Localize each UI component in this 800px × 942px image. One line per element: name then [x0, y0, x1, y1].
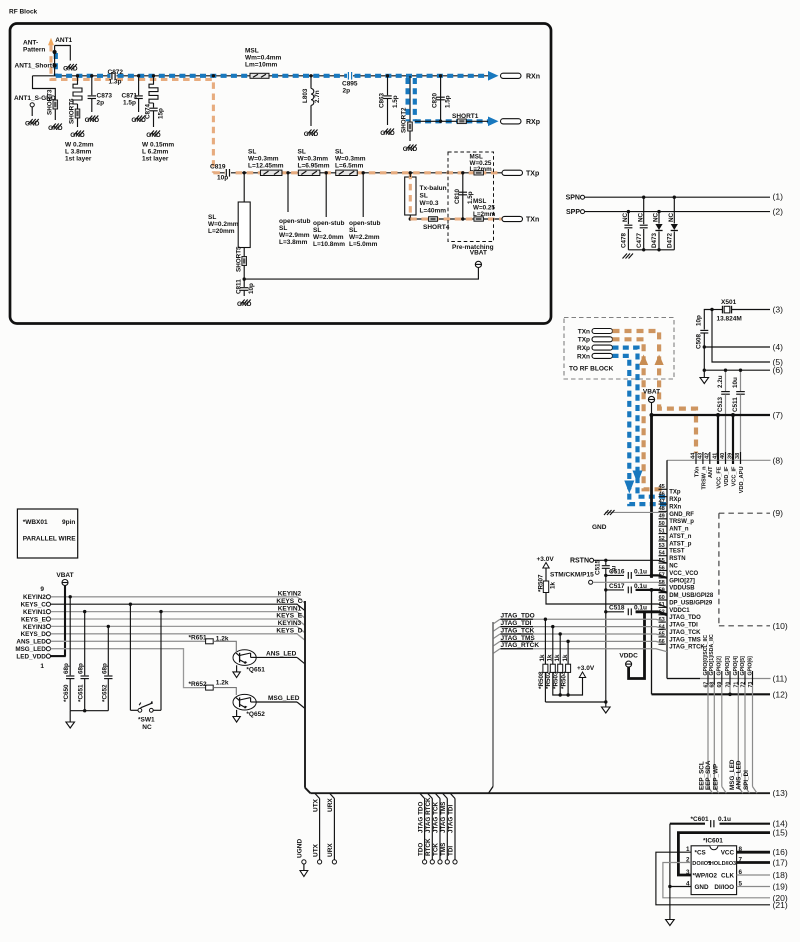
- svg-text:1st layer: 1st layer: [65, 156, 92, 163]
- svg-text:L=6.5mm: L=6.5mm: [335, 163, 364, 170]
- svg-text:open-stub: open-stub: [313, 220, 344, 227]
- svg-text:54: 54: [659, 551, 666, 557]
- svg-text:*CS: *CS: [695, 850, 706, 857]
- svg-text:UTX: UTX: [312, 798, 319, 812]
- svg-text:Wm=0.4mm: Wm=0.4mm: [245, 55, 282, 62]
- svg-text:SHORT5: SHORT5: [236, 246, 243, 272]
- svg-text:NC: NC: [668, 212, 675, 222]
- svg-text:GND: GND: [592, 524, 607, 531]
- svg-text:*R504: *R504: [561, 671, 568, 689]
- svg-text:JTAG_RTCK: JTAG_RTCK: [669, 645, 705, 651]
- svg-text:L=5.0mm: L=5.0mm: [349, 241, 378, 248]
- svg-text:NC: NC: [653, 212, 660, 222]
- svg-text:GND: GND: [237, 301, 252, 308]
- svg-text:JTAG_TDO: JTAG_TDO: [669, 615, 701, 621]
- svg-text:JTAG_TDI: JTAG_TDI: [669, 623, 698, 629]
- svg-text:ANT_n: ANT_n: [669, 527, 689, 533]
- svg-text:GPIO[1]/SDA_IIC: GPIO[1]/SDA_IIC: [709, 634, 715, 675]
- svg-text:1: 1: [40, 663, 44, 670]
- svg-text:0.1u: 0.1u: [634, 569, 647, 576]
- svg-text:(8): (8): [773, 455, 784, 465]
- svg-text:TXn: TXn: [694, 466, 700, 477]
- svg-text:C513: C513: [717, 396, 724, 412]
- svg-text:SHORT1: SHORT1: [452, 113, 479, 120]
- svg-text:50: 50: [659, 521, 665, 527]
- svg-text:D473: D473: [651, 232, 658, 248]
- svg-text:*C650: *C650: [63, 684, 70, 702]
- svg-text:L 6.2mm: L 6.2mm: [142, 149, 168, 156]
- svg-text:URX: URX: [327, 843, 334, 857]
- svg-text:*C651: *C651: [78, 684, 85, 702]
- svg-text:NC: NC: [637, 212, 644, 222]
- svg-text:KEYS_C: KEYS_C: [276, 598, 302, 605]
- svg-text:60: 60: [659, 595, 665, 601]
- svg-text:STM/CKM/P15: STM/CKM/P15: [550, 572, 594, 579]
- svg-text:GPIO[6]: GPIO[6]: [747, 656, 753, 676]
- svg-text:*C601: *C601: [691, 816, 709, 823]
- svg-text:2.7n: 2.7n: [314, 90, 321, 103]
- svg-text:(13): (13): [773, 788, 788, 798]
- svg-text:KEYS_D: KEYS_D: [21, 631, 47, 638]
- svg-text:L=2mm: L=2mm: [470, 166, 493, 173]
- svg-text:*Q652: *Q652: [246, 711, 265, 718]
- svg-text:ANT1: ANT1: [55, 37, 72, 44]
- svg-text:NC: NC: [669, 564, 678, 570]
- svg-text:KEYS_E: KEYS_E: [21, 616, 46, 623]
- svg-text:C518: C518: [609, 605, 625, 612]
- svg-text:*WBX01: *WBX01: [23, 519, 48, 526]
- svg-text:52: 52: [659, 536, 665, 542]
- svg-text:1k: 1k: [554, 654, 561, 662]
- svg-text:RTCK: RTCK: [425, 838, 432, 856]
- svg-text:C874: C874: [145, 103, 152, 119]
- svg-text:(3): (3): [773, 305, 784, 315]
- svg-text:GND: GND: [304, 131, 319, 138]
- svg-text:C511: C511: [732, 397, 739, 412]
- svg-text:open-stub: open-stub: [349, 220, 380, 227]
- svg-text:1k: 1k: [547, 654, 554, 662]
- svg-text:GPIO[2]: GPIO[2]: [717, 656, 723, 676]
- svg-text:TEST: TEST: [669, 549, 685, 555]
- svg-text:ANT: ANT: [708, 466, 714, 478]
- svg-text:68p: 68p: [101, 663, 108, 674]
- svg-text:L=40mm: L=40mm: [420, 208, 447, 215]
- svg-text:SL: SL: [248, 149, 256, 156]
- svg-text:ANS_LED: ANS_LED: [266, 650, 297, 657]
- svg-text:JTAG TCK: JTAG TCK: [433, 802, 440, 833]
- svg-text:9: 9: [40, 586, 44, 593]
- svg-text:2p: 2p: [97, 100, 105, 107]
- svg-text:(7): (7): [773, 410, 784, 420]
- svg-text:RXp: RXp: [577, 345, 590, 352]
- svg-text:Pre-matching: Pre-matching: [452, 244, 494, 251]
- svg-text:L=10.8mm: L=10.8mm: [313, 241, 345, 248]
- svg-text:(19): (19): [773, 882, 788, 892]
- svg-text:EEP_WP: EEP_WP: [713, 764, 720, 790]
- svg-text:TXn: TXn: [526, 217, 539, 224]
- svg-text:(18): (18): [773, 870, 788, 880]
- svg-text:GND: GND: [146, 132, 161, 139]
- svg-text:RF Block: RF Block: [9, 9, 38, 16]
- svg-text:TXp: TXp: [526, 170, 539, 177]
- svg-text:49: 49: [659, 514, 665, 520]
- svg-text:*R502: *R502: [545, 671, 552, 689]
- svg-text:UTX: UTX: [312, 843, 319, 857]
- svg-text:ANT-: ANT-: [23, 40, 38, 47]
- svg-text:TMS: TMS: [440, 843, 447, 856]
- svg-text:JTAG_RTCK: JTAG_RTCK: [501, 642, 540, 649]
- svg-text:VDD_IF: VDD_IF: [724, 466, 730, 486]
- svg-text:+3.0V: +3.0V: [537, 556, 555, 563]
- svg-text:13.824M: 13.824M: [717, 316, 742, 323]
- svg-text:C819: C819: [210, 164, 226, 171]
- svg-text:KEYIN3: KEYIN3: [278, 620, 302, 627]
- svg-text:RXp: RXp: [669, 497, 681, 503]
- svg-text:C477: C477: [636, 232, 643, 248]
- svg-text:*C652: *C652: [101, 684, 108, 702]
- svg-text:VDDC1: VDDC1: [669, 608, 690, 614]
- svg-text:VDD_APU: VDD_APU: [739, 467, 745, 494]
- svg-text:GPIO[4]: GPIO[4]: [733, 656, 739, 676]
- svg-text:2.2u: 2.2u: [717, 375, 724, 388]
- svg-text:KEYS_E: KEYS_E: [276, 613, 302, 620]
- svg-text:SL: SL: [208, 214, 216, 221]
- svg-text:SPP: SPP: [566, 209, 580, 216]
- svg-text:W=2.9mm: W=2.9mm: [279, 232, 310, 239]
- svg-text:(16): (16): [773, 847, 788, 857]
- svg-text:SHORT3: SHORT3: [47, 89, 54, 115]
- svg-text:68p: 68p: [78, 663, 85, 674]
- svg-text:C820: C820: [432, 92, 439, 108]
- svg-text:48: 48: [659, 506, 665, 512]
- svg-text:10p: 10p: [217, 175, 228, 182]
- svg-text:C478: C478: [621, 232, 628, 248]
- svg-text:3: 3: [686, 869, 690, 876]
- svg-text:open-stub: open-stub: [279, 218, 310, 225]
- svg-text:0.1u: 0.1u: [718, 816, 731, 823]
- svg-text:1k: 1k: [539, 654, 546, 662]
- svg-text:TRSW_p: TRSW_p: [669, 519, 694, 525]
- svg-text:+3.0V: +3.0V: [577, 665, 595, 672]
- svg-text:(12): (12): [773, 689, 788, 699]
- svg-text:0.1u: 0.1u: [634, 605, 647, 612]
- svg-text:C895: C895: [342, 81, 358, 88]
- svg-text:JTAG_TMS: JTAG_TMS: [501, 635, 536, 642]
- svg-text:JTAG_TCK: JTAG_TCK: [501, 627, 535, 634]
- svg-text:RXn: RXn: [669, 504, 681, 510]
- svg-text:1st layer: 1st layer: [142, 156, 169, 163]
- svg-text:JTAG RTCK: JTAG RTCK: [425, 797, 432, 833]
- svg-text:1k: 1k: [550, 581, 557, 589]
- svg-text:VDDUSB: VDDUSB: [669, 586, 695, 592]
- svg-text:GND: GND: [380, 130, 395, 137]
- svg-text:SL: SL: [349, 227, 357, 234]
- svg-text:VBAT: VBAT: [643, 389, 660, 396]
- svg-text:51: 51: [659, 528, 665, 534]
- svg-text:SL: SL: [313, 227, 321, 234]
- svg-text:C515: C515: [595, 559, 602, 575]
- svg-text:ATST_n: ATST_n: [669, 534, 692, 540]
- svg-text:C872: C872: [108, 69, 124, 76]
- svg-text:ATST_p: ATST_p: [669, 541, 692, 547]
- svg-text:1.5p: 1.5p: [123, 100, 136, 107]
- svg-text:SHORT4: SHORT4: [423, 224, 450, 231]
- svg-text:SL: SL: [298, 149, 306, 156]
- svg-text:1k: 1k: [562, 654, 569, 662]
- svg-text:(15): (15): [773, 828, 788, 838]
- svg-text:ANS_LED: ANS_LED: [736, 760, 743, 790]
- svg-text:VCC_FE: VCC_FE: [716, 466, 722, 488]
- svg-text:GPIO[27]: GPIO[27]: [669, 578, 695, 584]
- svg-text:RXn: RXn: [526, 73, 540, 80]
- svg-text:SHORT6: SHORT6: [69, 98, 76, 124]
- svg-text:1.5p: 1.5p: [467, 191, 474, 204]
- svg-text:GND: GND: [25, 121, 40, 128]
- svg-text:*R651: *R651: [189, 635, 207, 642]
- svg-text:L=3.8mm: L=3.8mm: [279, 239, 308, 246]
- svg-text:VDDC: VDDC: [619, 653, 638, 660]
- svg-text:JTAG TDO: JTAG TDO: [417, 802, 424, 833]
- svg-text:(17): (17): [773, 858, 788, 868]
- svg-text:*R652: *R652: [189, 681, 207, 688]
- svg-text:JTAG TDI: JTAG TDI: [448, 805, 455, 833]
- svg-text:GND_RF: GND_RF: [669, 512, 694, 518]
- svg-text:W=0.3: W=0.3: [420, 200, 439, 207]
- svg-text:X501: X501: [721, 299, 737, 306]
- svg-text:W 0.2mm: W 0.2mm: [65, 142, 94, 149]
- svg-text:*HOLD/IO3: *HOLD/IO3: [708, 861, 737, 867]
- svg-text:SPN: SPN: [566, 195, 580, 202]
- svg-text:RXn: RXn: [577, 353, 590, 360]
- svg-text:MSG_LED: MSG_LED: [15, 646, 46, 653]
- svg-text:KEYS_D: KEYS_D: [276, 628, 302, 635]
- svg-text:*R503: *R503: [553, 671, 560, 689]
- svg-text:GND: GND: [695, 884, 709, 891]
- svg-text:ANT1_Short1: ANT1_Short1: [15, 63, 57, 70]
- svg-text:VBAT: VBAT: [56, 572, 73, 579]
- svg-text:DM_USB/GPI28: DM_USB/GPI28: [669, 593, 714, 599]
- svg-text:1.2k: 1.2k: [216, 680, 229, 687]
- svg-text:41: 41: [713, 453, 719, 459]
- svg-text:GND: GND: [403, 146, 418, 153]
- svg-text:*IC601: *IC601: [703, 838, 723, 845]
- svg-text:JTAG_TDO: JTAG_TDO: [501, 613, 535, 620]
- svg-text:C810: C810: [454, 188, 461, 204]
- svg-text:56: 56: [659, 565, 665, 571]
- svg-text:DI/IOO: DI/IOO: [714, 884, 734, 891]
- svg-text:LED_VDD: LED_VDD: [16, 654, 46, 661]
- svg-text:KEYIN3: KEYIN3: [23, 624, 46, 631]
- svg-text:ANS_LED: ANS_LED: [16, 639, 46, 646]
- svg-text:NC: NC: [142, 724, 152, 731]
- svg-text:Pattern: Pattern: [23, 47, 45, 54]
- svg-text:(1): (1): [773, 192, 784, 202]
- svg-text:0.1u: 0.1u: [634, 583, 647, 590]
- svg-text:L=6.95mm: L=6.95mm: [298, 163, 330, 170]
- svg-text:L=2mm: L=2mm: [473, 211, 496, 218]
- svg-text:KEYIN2: KEYIN2: [278, 591, 302, 598]
- svg-text:W=0.3mm: W=0.3mm: [248, 156, 279, 163]
- svg-text:TXp: TXp: [669, 490, 681, 496]
- svg-text:10u: 10u: [732, 377, 739, 388]
- svg-text:(10): (10): [773, 621, 788, 631]
- svg-text:KEYIN1: KEYIN1: [23, 609, 46, 616]
- svg-text:MSG_LED: MSG_LED: [268, 695, 300, 702]
- svg-text:9pin: 9pin: [62, 519, 75, 526]
- svg-text:VCC: VCC: [721, 850, 735, 857]
- svg-text:GND: GND: [63, 66, 78, 73]
- svg-text:GND: GND: [70, 132, 85, 139]
- svg-text:1.5p: 1.5p: [392, 95, 399, 108]
- svg-text:SPI_DI: SPI_DI: [743, 770, 750, 790]
- svg-text:*SW1: *SW1: [138, 717, 155, 724]
- svg-text:CLK: CLK: [721, 872, 734, 879]
- svg-text:SL: SL: [420, 193, 428, 200]
- svg-text:L=12.45mm: L=12.45mm: [248, 163, 284, 170]
- svg-text:PARALLEL WIRE: PARALLEL WIRE: [23, 536, 77, 543]
- svg-text:L=20mm: L=20mm: [208, 228, 235, 235]
- svg-text:TDI: TDI: [448, 846, 455, 856]
- svg-text:KEYIN2: KEYIN2: [23, 594, 46, 601]
- svg-text:UGND: UGND: [297, 839, 304, 858]
- svg-text:GPIO[3]: GPIO[3]: [725, 656, 731, 676]
- svg-text:TRSW_n: TRSW_n: [701, 466, 707, 490]
- svg-text:C811: C811: [236, 279, 243, 294]
- svg-text:*R507: *R507: [538, 574, 545, 592]
- svg-text:46: 46: [659, 491, 665, 497]
- svg-text:C508: C508: [696, 333, 703, 349]
- svg-text:Tx-balun: Tx-balun: [420, 185, 447, 192]
- svg-text:*R508: *R508: [538, 671, 545, 689]
- svg-text:(11): (11): [773, 674, 788, 684]
- svg-text:JTAG_TMS: JTAG_TMS: [669, 637, 701, 643]
- svg-text:L 3.8mm: L 3.8mm: [65, 149, 91, 156]
- svg-text:TDO: TDO: [417, 843, 424, 856]
- svg-text:C873: C873: [97, 93, 113, 100]
- svg-text:TXn: TXn: [578, 328, 590, 335]
- svg-text:47: 47: [659, 499, 665, 505]
- svg-text:JTAG TMS: JTAG TMS: [440, 802, 447, 833]
- svg-text:Lm=10mm: Lm=10mm: [245, 62, 278, 69]
- svg-text:SL: SL: [335, 149, 343, 156]
- svg-text:43: 43: [698, 453, 704, 459]
- svg-text:45: 45: [659, 484, 665, 490]
- svg-text:D472: D472: [667, 232, 674, 248]
- svg-text:*Q651: *Q651: [246, 667, 265, 674]
- svg-text:C516: C516: [609, 569, 625, 576]
- svg-text:C517: C517: [609, 583, 625, 590]
- svg-text:(2): (2): [773, 207, 784, 217]
- svg-text:W=2.2mm: W=2.2mm: [349, 234, 380, 241]
- svg-text:TO RF BLOCK: TO RF BLOCK: [569, 366, 614, 373]
- svg-text:GPIO[0]/SCL_IIC: GPIO[0]/SCL_IIC: [703, 635, 709, 676]
- svg-text:EEP_SDA: EEP_SDA: [705, 760, 712, 790]
- svg-text:40: 40: [720, 453, 726, 459]
- svg-text:NC: NC: [622, 212, 629, 222]
- svg-text:C871: C871: [122, 93, 138, 100]
- svg-text:JTAG_TDI: JTAG_TDI: [501, 620, 532, 627]
- svg-text:JTAG_TCK: JTAG_TCK: [669, 630, 701, 636]
- svg-text:10p: 10p: [696, 315, 703, 326]
- svg-text:W=0.3mm: W=0.3mm: [335, 156, 366, 163]
- svg-text:RSTN: RSTN: [669, 556, 685, 562]
- svg-text:(6): (6): [773, 365, 784, 375]
- svg-text:2p: 2p: [343, 88, 351, 95]
- svg-text:W=2.0mm: W=2.0mm: [313, 234, 344, 241]
- svg-text:VCC_IF: VCC_IF: [731, 466, 737, 486]
- svg-text:C863: C863: [379, 92, 386, 108]
- svg-text:1.3p: 1.3p: [109, 79, 122, 86]
- svg-text:15p: 15p: [158, 108, 165, 119]
- svg-text:*WP/IO2: *WP/IO2: [693, 872, 718, 879]
- svg-text:GPIO[5]: GPIO[5]: [740, 656, 746, 676]
- svg-text:RSTN: RSTN: [570, 558, 589, 565]
- svg-text:TCK: TCK: [433, 843, 440, 856]
- svg-text:44: 44: [691, 452, 697, 459]
- svg-text:KEYIN1: KEYIN1: [278, 605, 302, 612]
- svg-text:38: 38: [735, 453, 741, 459]
- svg-text:W=0.2mm: W=0.2mm: [208, 221, 239, 228]
- svg-text:W=0.3mm: W=0.3mm: [298, 156, 329, 163]
- svg-text:10p: 10p: [248, 283, 255, 294]
- svg-text:MSL: MSL: [245, 48, 259, 55]
- svg-text:(4): (4): [773, 342, 784, 352]
- svg-text:68p: 68p: [63, 663, 70, 674]
- svg-text:42: 42: [705, 453, 711, 459]
- svg-text:TXp: TXp: [578, 337, 590, 344]
- svg-text:DP_USB/GPI29: DP_USB/GPI29: [669, 600, 713, 606]
- svg-text:53: 53: [659, 543, 665, 549]
- svg-text:W 0.15mm: W 0.15mm: [142, 142, 174, 149]
- svg-text:(9): (9): [773, 508, 784, 518]
- svg-text:VCC_VCO: VCC_VCO: [669, 571, 698, 577]
- svg-text:GND: GND: [85, 117, 100, 124]
- svg-text:KEYS_C: KEYS_C: [21, 602, 47, 609]
- svg-text:GND: GND: [48, 125, 63, 132]
- svg-text:39: 39: [728, 453, 734, 459]
- svg-text:SL: SL: [279, 225, 287, 232]
- svg-text:URX: URX: [327, 798, 334, 812]
- svg-text:RXp: RXp: [526, 119, 540, 126]
- svg-text:L803: L803: [302, 88, 309, 103]
- svg-text:1.5p: 1.5p: [445, 95, 452, 108]
- svg-text:(21): (21): [773, 900, 788, 910]
